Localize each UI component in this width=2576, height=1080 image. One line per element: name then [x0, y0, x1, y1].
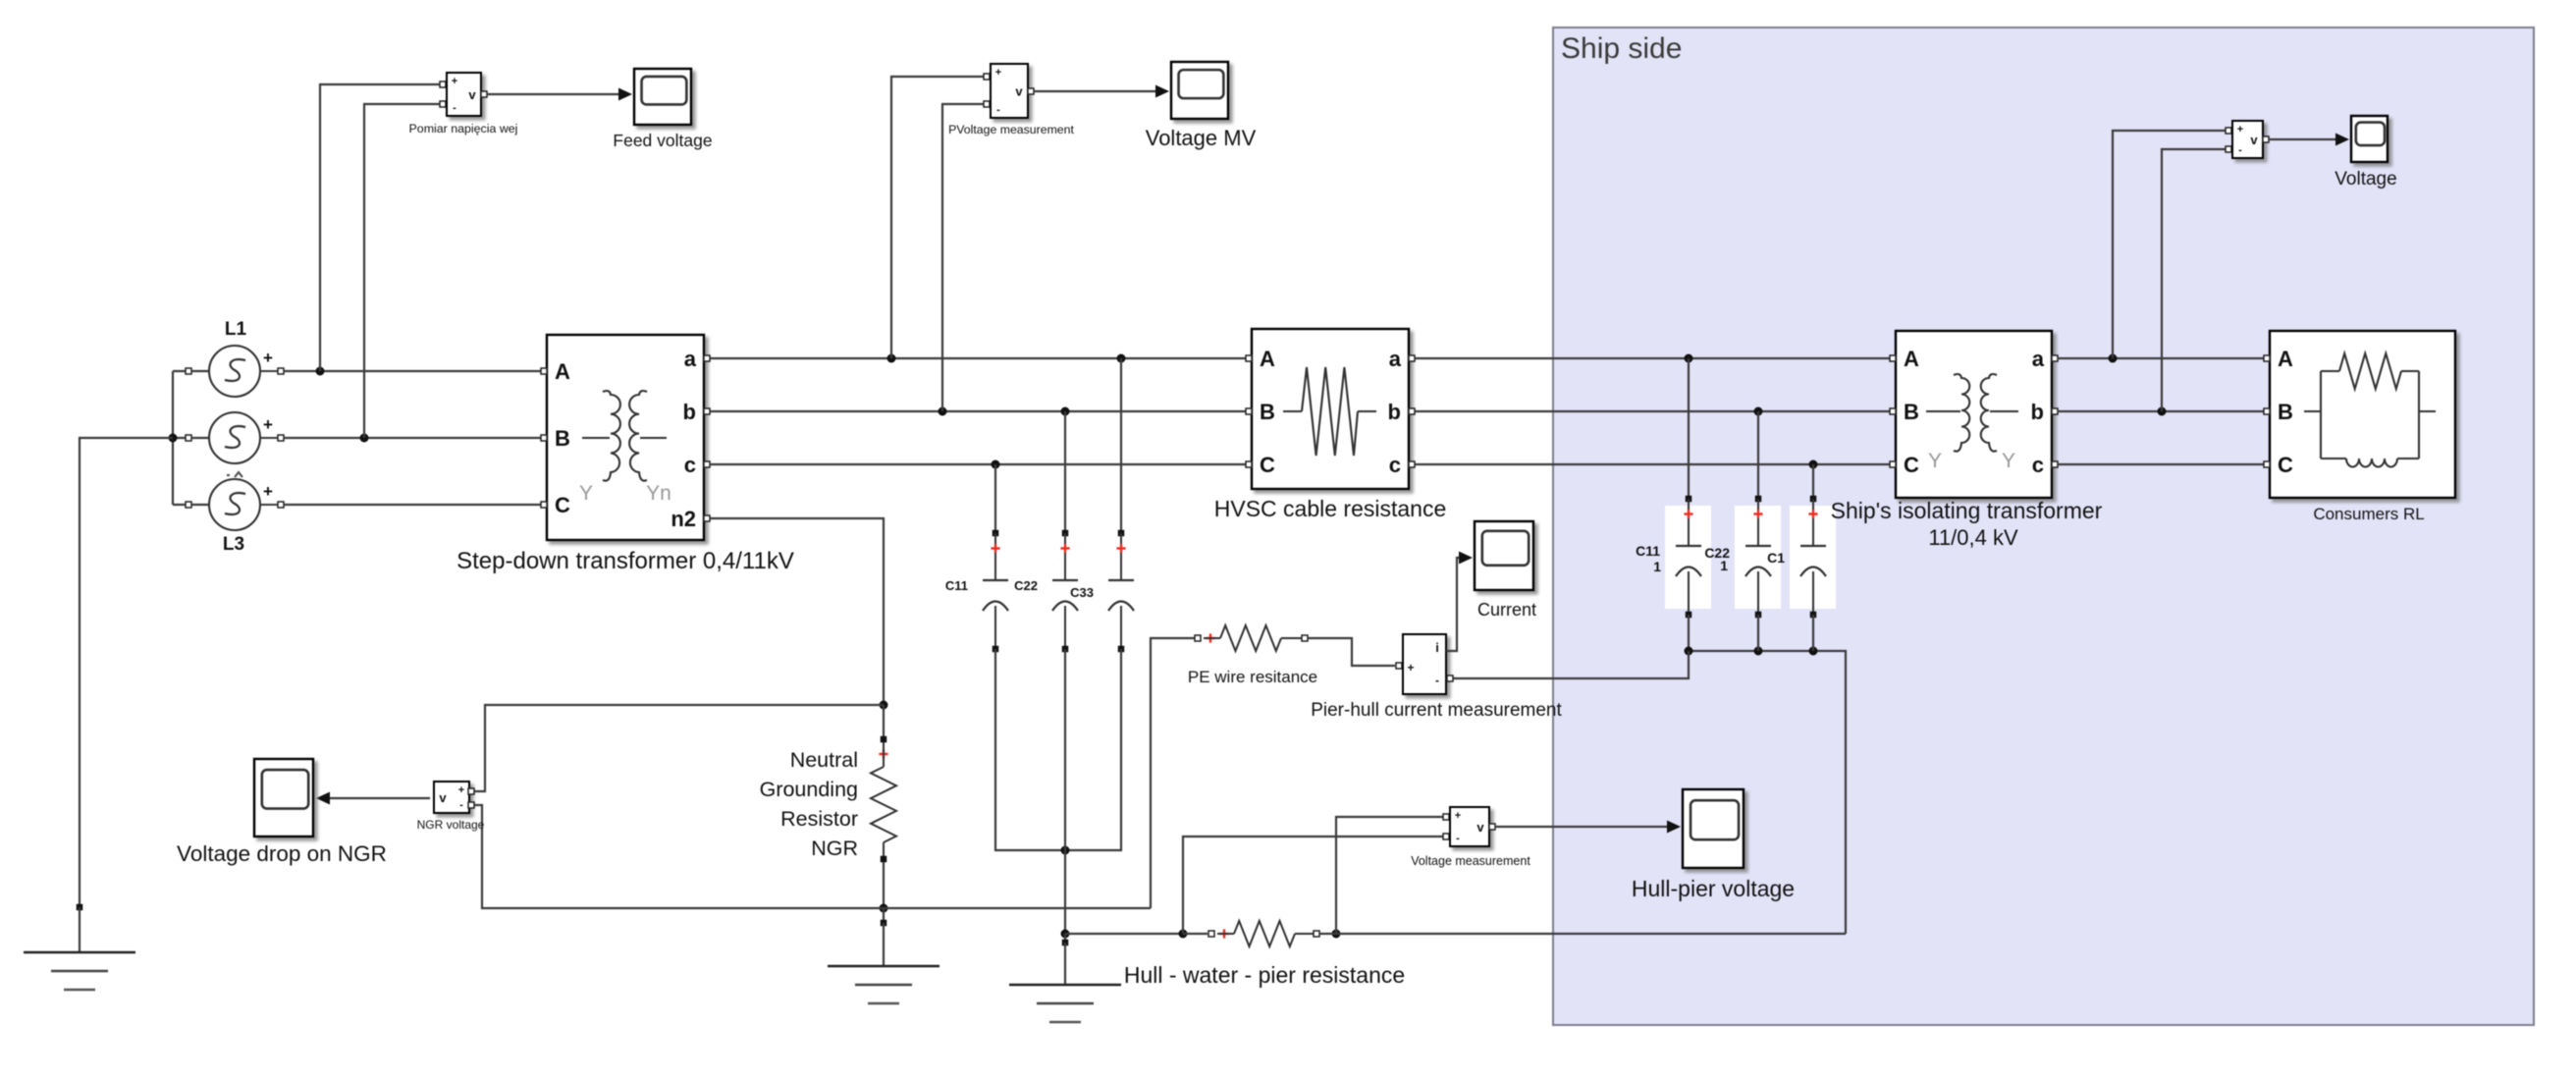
label Hull - water - pier resistance: [1124, 962, 1405, 988]
svg-text:C: C: [1904, 453, 1919, 477]
wire ship vmeas v to Voltage scope: [2269, 134, 2349, 146]
node junction NGR bottom bus: [880, 904, 888, 913]
transformer T2 ship isolating 11/0,4 kV: [1890, 331, 2058, 498]
wire ground-return bus: [473, 805, 1151, 908]
wire row c HVSC to T2: [1415, 463, 1896, 465]
capacitor C22: [1014, 530, 1078, 653]
wire row c T2 to consumers: [2058, 463, 2270, 465]
resistor PE wire resitance: [1188, 625, 1317, 686]
svg-text:PE wire resitance: PE wire resitance: [1188, 668, 1317, 686]
svg-text:Voltage MV: Voltage MV: [1146, 126, 1257, 150]
node junction NGR top: [880, 701, 888, 710]
port ground far-left: [77, 904, 83, 911]
voltage source L2: [186, 412, 284, 463]
wire NGR voltage to scope: [316, 792, 430, 805]
label HVSC cable resistance: [1214, 496, 1447, 521]
svg-text:a: a: [684, 347, 697, 371]
svg-text:A: A: [1260, 347, 1275, 371]
svg-text:Resistor: Resistor: [780, 807, 858, 831]
svg-text:L1: L1: [225, 319, 247, 340]
svg-text:Neutral: Neutral: [790, 748, 858, 772]
ground far-left: [24, 952, 135, 990]
svg-text:PVoltage measurement: PVoltage measurement: [948, 123, 1074, 136]
wire capacitor bottom bus shore: [995, 649, 1121, 850]
node tap b for PVoltage measurement: [939, 407, 947, 416]
svg-text:1: 1: [1653, 559, 1661, 574]
svg-text:Voltage measurement: Voltage measurement: [1411, 854, 1530, 868]
node junction ship bus C1: [1809, 647, 1818, 656]
voltage measurement U4 Pomiar napiecia wej: [409, 73, 518, 135]
svg-text:Hull-pier voltage: Hull-pier voltage: [1632, 876, 1795, 901]
svg-text:Ship's isolating transformer: Ship's isolating transformer: [1831, 498, 2103, 523]
label Step-down transformer: [456, 548, 794, 574]
svg-text:HVSC cable resistance: HVSC cable resistance: [1214, 496, 1447, 521]
ground below NGR: [828, 966, 939, 1003]
svg-text:a: a: [2032, 347, 2045, 371]
capacitor C11: [945, 530, 1008, 653]
node tap c ship cap C1: [1809, 460, 1818, 469]
svg-text:Grounding: Grounding: [760, 778, 858, 801]
svg-text:Y: Y: [2002, 450, 2015, 472]
wire ship C1 stem: [1812, 464, 1814, 499]
wire n2 to NGR: [710, 518, 884, 701]
resistor NGR: [871, 705, 896, 904]
label ship isolating transformer: [1831, 498, 2103, 550]
svg-text:C22: C22: [1014, 578, 1038, 593]
svg-text:Current: Current: [1477, 600, 1536, 620]
wire tap up to ship vmeas -: [2162, 149, 2227, 411]
wire ship C22 stem: [1757, 411, 1759, 499]
wire tap A up to Pomiar +: [320, 84, 442, 371]
wire phase A source to T1: [284, 370, 547, 372]
wire hull row left: [1065, 933, 1183, 935]
svg-text:Consumers RL: Consumers RL: [2313, 505, 2424, 523]
svg-text:Voltage drop on NGR: Voltage drop on NGR: [177, 841, 387, 866]
wire ship bus to pier-hull measurement: [1453, 651, 1689, 678]
svg-text:C: C: [1260, 453, 1275, 477]
svg-text:b: b: [2031, 400, 2044, 424]
svg-text:+: +: [1407, 661, 1414, 675]
wire NGR loop top: [473, 705, 884, 791]
wire C11 stem: [994, 464, 996, 533]
subsystem region Ship side: [1553, 27, 2534, 1025]
voltage measurement U7 ship: [2226, 121, 2269, 158]
node junction hull node: [1061, 930, 1070, 939]
capacitor C33: [1070, 530, 1134, 653]
wire tap B up to Pomiar -: [364, 104, 442, 438]
svg-text:-: -: [1435, 674, 1439, 687]
wire NGR to ground: [881, 908, 887, 966]
voltage measurement U5 PVoltage measurement: [948, 64, 1074, 136]
svg-text:A: A: [1904, 347, 1919, 371]
wire to far-left ground: [80, 438, 173, 907]
wire row b T2 to consumers: [2058, 410, 2270, 412]
transformer T1 Step-down 0,4/11kV: [541, 335, 710, 540]
node tap a for PVoltage measurement: [887, 354, 896, 363]
svg-text:B: B: [555, 426, 570, 451]
label Consumers RL: [2313, 505, 2424, 523]
svg-text:-: -: [453, 102, 456, 114]
svg-text:+: +: [995, 67, 1001, 79]
svg-text:Y: Y: [579, 482, 593, 505]
scope Voltage drop on NGR: [177, 759, 387, 866]
svg-text:Ship side: Ship side: [1561, 32, 1682, 65]
wire row c T1 to HVSC: [710, 463, 1252, 465]
resistor Hull-water-pier: [1183, 921, 1319, 946]
svg-text:Pier-hull current measurement: Pier-hull current measurement: [1311, 700, 1562, 721]
wire hull minus tap up: [1183, 837, 1445, 934]
svg-text:Step-down transformer 0,4/11kV: Step-down transformer 0,4/11kV: [456, 548, 794, 574]
wire row b T1 to HVSC: [710, 410, 1252, 412]
svg-text:i: i: [1435, 640, 1439, 655]
label L2 (mostly hidden): [227, 472, 242, 477]
node tap b for C22: [1061, 407, 1070, 416]
scope Voltage: [2334, 116, 2396, 189]
wire PE left lead: [1151, 638, 1198, 908]
wire row b HVSC to T2: [1415, 410, 1896, 412]
wire i to Current scope: [1446, 552, 1473, 652]
capacitor ship C1: [1767, 496, 1836, 619]
wire row a T2 to consumers: [2058, 357, 2270, 359]
svg-text:11/0,4 kV: 11/0,4 kV: [1928, 525, 2018, 550]
node junction source bus B: [169, 434, 178, 443]
node tap A for input voltage measurement: [316, 367, 325, 376]
ground below hull node: [1009, 985, 1121, 1022]
voltage source L1: [186, 319, 284, 397]
svg-text:L3: L3: [223, 534, 244, 555]
voltage source L3: [186, 479, 284, 555]
scope Feed voltage: [613, 69, 712, 150]
node tap b ship voltage measurement: [2158, 407, 2167, 416]
block HVSC cable resistance: [1246, 329, 1415, 489]
svg-text:Y: Y: [1928, 450, 1942, 472]
svg-text:c: c: [2032, 453, 2044, 477]
wire left source bus: [173, 371, 209, 505]
node junction hull plus tap: [1332, 930, 1341, 939]
wire C33 stem: [1120, 358, 1122, 533]
svg-text:C: C: [2278, 453, 2293, 477]
block Consumers RL: [2264, 331, 2455, 498]
wire phase B source to T1: [284, 437, 547, 439]
node junction hull minus tap: [1179, 930, 1188, 939]
wire row a HVSC to T2: [1415, 357, 1896, 359]
wire hull plus tap up: [1336, 817, 1445, 934]
svg-text:NGR voltage: NGR voltage: [417, 818, 485, 832]
wire ground stem far-left: [79, 907, 80, 952]
capacitor ship C22 1: [1704, 496, 1781, 619]
capacitor ship C11 1: [1636, 496, 1711, 619]
wire PE right to pier-hull +: [1308, 638, 1395, 666]
svg-text:C33: C33: [1070, 585, 1094, 600]
svg-text:a: a: [1389, 347, 1402, 371]
svg-text:B: B: [1260, 400, 1275, 424]
svg-text:v: v: [2250, 133, 2258, 147]
svg-text:Voltage: Voltage: [2334, 169, 2396, 189]
svg-text:+: +: [263, 482, 273, 501]
wire phase C source to T1: [284, 504, 547, 506]
svg-text:v: v: [1015, 84, 1023, 99]
svg-text:b: b: [683, 400, 696, 424]
svg-text:Pomiar napięcia wej: Pomiar napięcia wej: [409, 122, 518, 135]
svg-text:+: +: [2237, 124, 2243, 135]
svg-text:Yn: Yn: [646, 482, 671, 505]
scope Current: [1475, 521, 1536, 620]
wire ship C11 stem: [1688, 358, 1690, 499]
scope Hull-pier voltage: [1632, 789, 1795, 901]
svg-text:A: A: [555, 359, 570, 384]
node tap c for C11: [992, 460, 1000, 469]
svg-text:Feed voltage: Feed voltage: [613, 131, 712, 150]
node tap a ship voltage measurement: [2109, 354, 2118, 363]
wire hull node to ground: [1062, 934, 1069, 985]
wire middle cap down: [1064, 649, 1066, 850]
wire hull row to ship bus: [1319, 933, 1846, 935]
svg-text:Hull - water - pier resistance: Hull - water - pier resistance: [1124, 962, 1405, 988]
wire hull vmeas to scope: [1495, 821, 1681, 834]
svg-text:b: b: [1388, 400, 1401, 424]
svg-text:+: +: [1455, 810, 1461, 822]
svg-text:+: +: [263, 349, 273, 367]
svg-text:C11: C11: [945, 578, 968, 593]
node tap a ship cap C11: [1685, 354, 1693, 363]
node junction ship bus C22: [1754, 647, 1763, 656]
current measurement U6 Pier-hull: [1311, 634, 1562, 721]
svg-text:C11: C11: [1636, 543, 1660, 559]
scope Voltage MV: [1146, 62, 1257, 150]
svg-text:v: v: [439, 790, 447, 805]
label Neutral Grounding Resistor NGR: [760, 748, 858, 860]
voltage measurement U8 NGR voltage: [417, 782, 485, 832]
node junction cap bus middle: [1061, 846, 1070, 855]
svg-text:-: -: [2238, 144, 2242, 156]
svg-text:v: v: [468, 87, 476, 102]
wire ship C1 to bus: [1812, 615, 1814, 651]
node tap a for C33: [1117, 354, 1126, 363]
svg-text:C1: C1: [1767, 550, 1785, 566]
wire C22 stem: [1064, 411, 1066, 533]
svg-text:+: +: [452, 76, 457, 87]
wire row a T1 to HVSC: [710, 357, 1252, 359]
wire PVoltage v to Voltage MV scope: [1034, 85, 1169, 98]
svg-text:-: -: [1456, 833, 1460, 844]
svg-text:n2: n2: [671, 507, 696, 531]
svg-text:C: C: [555, 493, 570, 517]
svg-text:-: -: [459, 799, 463, 811]
wire Pomiar v to Feed voltage scope: [487, 88, 632, 101]
svg-text:-: -: [996, 104, 1000, 116]
svg-text:c: c: [1389, 453, 1401, 477]
svg-text:+: +: [263, 415, 273, 434]
wire ship C22 to bus: [1757, 615, 1759, 651]
wire tap a up to PVoltage +: [891, 77, 986, 358]
svg-text:+: +: [458, 784, 464, 796]
node tap B for input voltage measurement: [360, 434, 369, 443]
svg-text:v: v: [1476, 820, 1484, 835]
wire middle stem to hull node: [1064, 850, 1066, 934]
svg-text:B: B: [2278, 400, 2293, 424]
wire tap b up to PVoltage -: [942, 104, 986, 411]
svg-text:c: c: [684, 453, 696, 477]
wire tap up to ship vmeas +: [2113, 131, 2227, 358]
svg-text:NGR: NGR: [811, 837, 858, 860]
node junction ship bus C11: [1685, 647, 1693, 656]
svg-text:A: A: [2278, 347, 2293, 371]
svg-text:B: B: [1904, 400, 1919, 424]
voltage measurement U9 hull: [1411, 807, 1530, 868]
wire ship cap bottom bus: [1689, 615, 1846, 934]
svg-text:1: 1: [1720, 558, 1728, 573]
node tap b ship cap C22: [1754, 407, 1763, 416]
